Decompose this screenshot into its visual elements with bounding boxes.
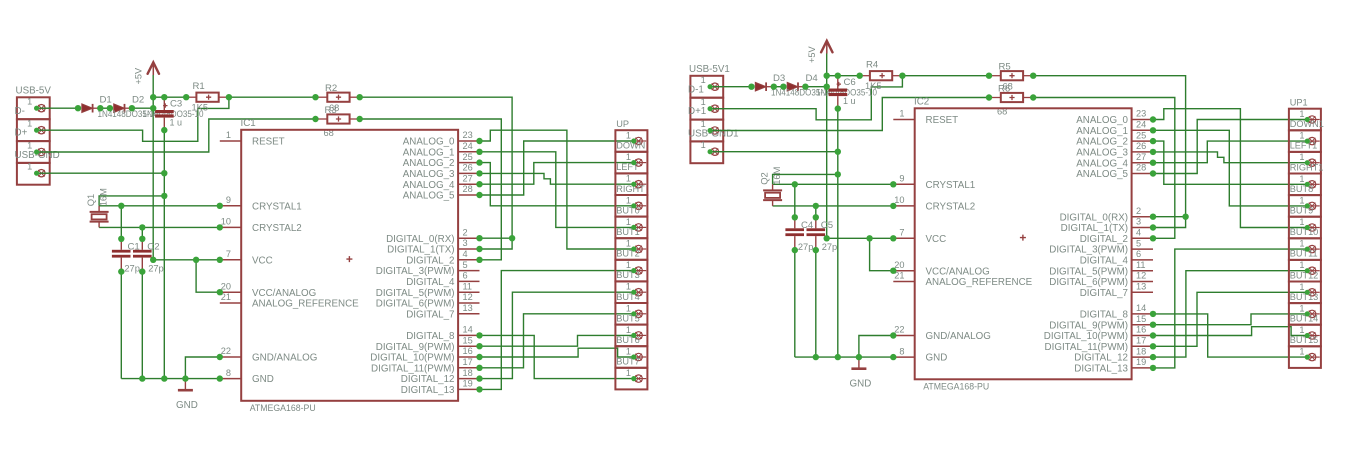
- resistor R2 68: [316, 83, 360, 113]
- svg-text:1: 1: [27, 97, 32, 107]
- wire pin 22 to GND rail: [185, 357, 219, 379]
- svg-text:27p: 27p: [124, 263, 140, 273]
- wire DIGITAL_8 to BUT7: [1153, 314, 1307, 357]
- svg-text:1: 1: [626, 239, 631, 249]
- wire D- pullup between R: [229, 96, 316, 98]
- wire pin 20 to VCC: [196, 260, 220, 292]
- svg-text:VCC/ANALOG: VCC/ANALOG: [926, 266, 990, 277]
- svg-text:ATMEGA168-PU: ATMEGA168-PU: [250, 403, 316, 414]
- svg-text:24: 24: [463, 141, 473, 151]
- svg-text:1: 1: [626, 131, 631, 141]
- svg-text:+5V: +5V: [807, 46, 817, 63]
- svg-text:1: 1: [626, 217, 631, 227]
- resistor R4 1K5: [860, 60, 903, 91]
- connector BUT15: [1289, 335, 1321, 368]
- wire BUT2 to DIGITAL_13: [1153, 249, 1307, 368]
- +5V power symbol: [807, 41, 833, 63]
- svg-text:4: 4: [1136, 228, 1141, 238]
- svg-text:GND: GND: [176, 400, 198, 411]
- wire BUT3 to DIGITAL_12: [1153, 271, 1307, 357]
- svg-text:DIGITAL_2: DIGITAL_2: [1080, 234, 1128, 245]
- wire USB-5V1 pin to diode: [710, 86, 751, 88]
- wire D- net: [710, 76, 902, 120]
- wire CRYSTAL2: [99, 226, 220, 228]
- svg-text:DIGITAL_0(RX): DIGITAL_0(RX): [1060, 212, 1128, 223]
- wire diode out to +5V rail: [805, 86, 826, 88]
- svg-text:20: 20: [221, 281, 231, 291]
- svg-text:DIGITAL_4: DIGITAL_4: [1080, 256, 1129, 267]
- connector BUT4: [615, 292, 647, 325]
- svg-text:UP1: UP1: [1290, 98, 1308, 108]
- svg-text:27p: 27p: [822, 242, 838, 252]
- wire GND vertical: [837, 109, 839, 358]
- wire C cap1 bottom to rail: [794, 250, 796, 357]
- capacitor C1 27p: [112, 239, 140, 273]
- wire ANALOG_0 to BUT1: [480, 130, 634, 249]
- svg-text:BUT12: BUT12: [1290, 270, 1319, 280]
- resistor R1 1K5: [186, 81, 229, 112]
- svg-text:ANALOG_3: ANALOG_3: [1076, 148, 1128, 159]
- diode D2: [114, 104, 133, 113]
- svg-text:GND: GND: [926, 353, 948, 364]
- connector BUT12: [1289, 270, 1321, 303]
- svg-text:15: 15: [463, 335, 473, 345]
- svg-text:13: 13: [463, 303, 473, 313]
- capacitor C5 27p: [807, 217, 838, 252]
- capacitor C3 1u: [155, 97, 182, 130]
- connector LEFT1: [1289, 141, 1321, 174]
- svg-text:VCC: VCC: [252, 255, 273, 266]
- svg-text:RIGHT: RIGHT: [616, 184, 645, 194]
- wire CRYSTAL1: [773, 183, 894, 185]
- svg-text:23: 23: [463, 130, 473, 140]
- connector BUT11: [1289, 249, 1321, 282]
- svg-text:C5: C5: [821, 220, 833, 231]
- svg-text:BUT15: BUT15: [1290, 335, 1319, 345]
- wire ANALOG_1 to BUT0: [1153, 130, 1307, 206]
- svg-text:IC2: IC2: [914, 97, 929, 108]
- svg-text:1 u: 1 u: [843, 96, 856, 106]
- wire CRYSTAL2: [773, 205, 894, 207]
- svg-text:12: 12: [463, 292, 473, 302]
- resistor R5 68: [989, 62, 1033, 92]
- wire C cap2 top: [815, 206, 817, 217]
- svg-text:14: 14: [1136, 303, 1146, 313]
- svg-text:1: 1: [626, 282, 631, 292]
- svg-text:UP: UP: [616, 119, 629, 129]
- svg-text:GND/ANALOG: GND/ANALOG: [252, 353, 317, 364]
- svg-text:26: 26: [463, 163, 473, 173]
- wire VCC to pin 7: [153, 259, 220, 261]
- svg-text:DIGITAL_13: DIGITAL_13: [1074, 364, 1128, 375]
- svg-text:BUT0: BUT0: [616, 205, 640, 215]
- connector USB-5V1: [689, 64, 730, 98]
- capacitor C4 27p: [785, 217, 814, 252]
- wire DIGITAL_8 to BUT7: [480, 335, 634, 378]
- svg-text:18: 18: [1136, 346, 1146, 356]
- wire UP to ANALOG_5: [480, 141, 634, 195]
- wire D- pullup between R: [902, 75, 989, 77]
- wire DOWN to ANALOG_4: [480, 163, 634, 185]
- diode D3: [755, 82, 774, 91]
- svg-text:1: 1: [27, 141, 32, 151]
- svg-text:28: 28: [463, 184, 473, 194]
- svg-text:R2: R2: [325, 83, 337, 94]
- svg-text:RESET: RESET: [252, 137, 285, 148]
- wire C cap1 top: [794, 184, 796, 217]
- svg-text:1: 1: [226, 130, 231, 140]
- connector D+: [15, 128, 50, 163]
- svg-text:DIGITAL_8: DIGITAL_8: [1080, 310, 1129, 321]
- svg-text:15: 15: [1136, 314, 1146, 324]
- svg-text:1: 1: [1299, 260, 1304, 270]
- svg-text:LEFT1: LEFT1: [1290, 141, 1318, 151]
- svg-text:ANALOG_REFERENCE: ANALOG_REFERENCE: [252, 299, 359, 310]
- svg-text:DIGITAL_3(PWM): DIGITAL_3(PWM): [1049, 245, 1128, 256]
- svg-text:5: 5: [1136, 238, 1141, 248]
- ground symbol: [176, 379, 198, 411]
- svg-text:BUT10: BUT10: [1290, 227, 1319, 237]
- svg-text:11: 11: [463, 281, 473, 291]
- svg-text:D4: D4: [806, 73, 819, 84]
- capacitor C6 1u: [829, 76, 856, 109]
- connector D-: [15, 106, 50, 141]
- svg-text:D-1: D-1: [688, 84, 704, 95]
- svg-text:BUT8: BUT8: [1290, 184, 1314, 194]
- svg-text:DIGITAL_3(PWM): DIGITAL_3(PWM): [376, 266, 455, 277]
- svg-text:CRYSTAL2: CRYSTAL2: [252, 223, 302, 234]
- svg-text:DIGITAL_7: DIGITAL_7: [1080, 288, 1128, 299]
- ground symbol: [850, 357, 872, 389]
- svg-text:10: 10: [894, 195, 904, 205]
- wire C cap1 top: [120, 206, 122, 239]
- svg-text:DIGITAL_1(TX): DIGITAL_1(TX): [387, 245, 454, 256]
- wire GND vertical: [163, 130, 165, 379]
- resistor R3 68: [316, 105, 360, 138]
- connector BUT7: [615, 357, 647, 390]
- wire BUT3 to DIGITAL_12: [480, 292, 634, 378]
- svg-text:1: 1: [1299, 109, 1304, 119]
- crystal Q2 16M: [759, 166, 783, 206]
- svg-text:GND/ANALOG: GND/ANALOG: [926, 331, 991, 342]
- svg-text:26: 26: [1136, 141, 1146, 151]
- wire ANALOG_0 to BUT1: [1153, 109, 1307, 228]
- wire BUT4 to DIGITAL_11: [1153, 292, 1307, 346]
- svg-text:1: 1: [1299, 282, 1304, 292]
- svg-text:1: 1: [626, 152, 631, 162]
- svg-text:C3: C3: [170, 99, 182, 110]
- connector BUT9: [1289, 206, 1321, 239]
- connector BUT8: [1289, 184, 1321, 217]
- wire GND rail: [121, 378, 220, 380]
- svg-text:1: 1: [1299, 195, 1304, 205]
- wire D+ net: [37, 119, 316, 152]
- svg-text:BUT9: BUT9: [1290, 206, 1314, 216]
- svg-text:5: 5: [463, 260, 468, 270]
- svg-text:D-: D-: [15, 106, 25, 117]
- svg-text:R5: R5: [999, 62, 1011, 73]
- svg-text:BUT6: BUT6: [616, 335, 640, 345]
- svg-text:16: 16: [463, 346, 473, 356]
- svg-text:27p: 27p: [798, 242, 814, 252]
- wire DIGITAL_10 to BUT6: [480, 348, 634, 357]
- svg-text:2: 2: [463, 227, 468, 237]
- svg-text:ATMEGA168-PU: ATMEGA168-PU: [923, 382, 989, 393]
- svg-text:DIGITAL_12: DIGITAL_12: [401, 374, 455, 385]
- connector USB-GND: [15, 150, 60, 185]
- wire C cap2 bottom: [141, 272, 143, 379]
- wire +5V rail vertical: [826, 54, 828, 239]
- svg-text:BUT13: BUT13: [1290, 292, 1319, 302]
- svg-text:GND: GND: [252, 374, 274, 385]
- svg-text:22: 22: [221, 346, 231, 356]
- connector BUT1: [615, 227, 647, 260]
- svg-text:ANALOG_3: ANALOG_3: [403, 169, 455, 180]
- wire +5V top rail to R: [827, 75, 860, 77]
- svg-text:27p: 27p: [148, 263, 164, 273]
- svg-text:DIGITAL_2: DIGITAL_2: [406, 255, 454, 266]
- wire pin 22 to GND rail: [859, 336, 893, 358]
- connector BUT6: [615, 335, 647, 368]
- svg-text:D1: D1: [100, 94, 112, 105]
- svg-text:USB-5V1: USB-5V1: [689, 64, 730, 75]
- svg-text:D3: D3: [773, 73, 785, 84]
- svg-text:1: 1: [1299, 174, 1304, 184]
- connector BUT14: [1289, 314, 1321, 347]
- svg-text:BUT5: BUT5: [616, 313, 640, 323]
- svg-text:1: 1: [626, 174, 631, 184]
- wire pin 20 to VCC: [870, 238, 894, 270]
- svg-text:4: 4: [463, 249, 468, 259]
- svg-text:16M: 16M: [97, 188, 108, 206]
- connector BUT10: [1289, 227, 1321, 260]
- connector BUT5: [615, 313, 647, 346]
- wire BUT2 to DIGITAL_13: [480, 271, 634, 390]
- connector RIGHT1: [1289, 162, 1324, 195]
- svg-text:DIGITAL_7: DIGITAL_7: [406, 309, 454, 320]
- svg-text:DIGITAL_12: DIGITAL_12: [1074, 353, 1128, 364]
- wire diode D1-D2: [774, 86, 784, 88]
- wire ANALOG_2 to RIGHT: [480, 163, 634, 206]
- wire DIGITAL_9 to BUT5: [1153, 314, 1307, 325]
- svg-text:RESET: RESET: [926, 115, 959, 126]
- wire USB-GND: [37, 172, 165, 174]
- svg-text:ANALOG_1: ANALOG_1: [1076, 126, 1128, 137]
- wire DOWN to ANALOG_4: [1153, 141, 1307, 163]
- svg-text:6: 6: [1136, 249, 1141, 259]
- connector BUT0: [615, 205, 647, 238]
- svg-text:3: 3: [1136, 217, 1141, 227]
- svg-text:1: 1: [1299, 303, 1304, 313]
- resistor R6 68: [989, 83, 1033, 116]
- wire ANALOG_3 to LEFT: [1153, 152, 1307, 163]
- connector DOWN: [615, 141, 647, 174]
- svg-text:8: 8: [226, 368, 231, 378]
- svg-text:1: 1: [626, 325, 631, 335]
- svg-text:10: 10: [221, 217, 231, 227]
- wire R R6 to pin 4: [1033, 98, 1175, 239]
- svg-text:24: 24: [1136, 120, 1146, 130]
- svg-text:ANALOG_4: ANALOG_4: [1076, 158, 1128, 169]
- wire +5V rail vertical: [152, 75, 154, 260]
- svg-text:17: 17: [463, 357, 473, 367]
- svg-text:11: 11: [1136, 260, 1146, 270]
- wire ANALOG_1 to BUT0: [480, 152, 634, 228]
- svg-text:BUT2: BUT2: [616, 249, 640, 259]
- svg-text:BUT11: BUT11: [1290, 249, 1318, 259]
- svg-text:+5V: +5V: [134, 67, 144, 84]
- svg-text:DOWN: DOWN: [616, 141, 645, 151]
- wire GND rail: [795, 356, 894, 358]
- svg-text:1: 1: [1299, 131, 1304, 141]
- svg-text:1: 1: [1299, 325, 1304, 335]
- wire D- net: [37, 97, 229, 141]
- svg-text:ANALOG_5: ANALOG_5: [403, 191, 455, 202]
- svg-text:1K5: 1K5: [865, 81, 882, 91]
- svg-text:1: 1: [626, 260, 631, 270]
- svg-text:1: 1: [1299, 217, 1304, 227]
- svg-text:ANALOG_1: ANALOG_1: [403, 147, 455, 158]
- svg-text:7: 7: [226, 249, 231, 259]
- wire DIGITAL_10 to BUT6: [1153, 327, 1307, 336]
- svg-text:16M: 16M: [771, 166, 782, 184]
- svg-text:19: 19: [1136, 357, 1146, 367]
- svg-text:DIGITAL_9(PWM): DIGITAL_9(PWM): [1049, 320, 1128, 331]
- svg-text:20: 20: [894, 260, 904, 270]
- svg-text:DIGITAL_6(PWM): DIGITAL_6(PWM): [376, 299, 455, 310]
- svg-text:25: 25: [463, 152, 473, 162]
- svg-text:7: 7: [899, 228, 904, 238]
- svg-text:1 u: 1 u: [170, 118, 183, 128]
- svg-text:27: 27: [463, 173, 473, 183]
- connector pin dots: [708, 84, 1310, 360]
- connector BUT3: [615, 270, 647, 303]
- svg-text:DIGITAL_11(PWM): DIGITAL_11(PWM): [1045, 342, 1128, 353]
- connector UP: [615, 119, 647, 152]
- wire R R3 to pin 4: [360, 119, 502, 260]
- svg-text:R4: R4: [866, 60, 879, 71]
- svg-text:1: 1: [27, 119, 32, 129]
- svg-text:BUT4: BUT4: [616, 292, 640, 302]
- svg-text:17: 17: [1136, 336, 1146, 346]
- connector BUT2: [615, 249, 647, 282]
- svg-text:R6: R6: [998, 83, 1010, 94]
- svg-text:25: 25: [1136, 130, 1146, 140]
- wire R R2 to pins 2/3: [360, 97, 512, 249]
- connector DOWN1: [1289, 119, 1324, 152]
- svg-text:BUT1: BUT1: [616, 227, 640, 237]
- svg-text:ANALOG_5: ANALOG_5: [1076, 169, 1128, 180]
- wire USB-GND: [710, 151, 838, 153]
- wire UP to ANALOG_5: [1153, 120, 1307, 174]
- junction dots: [75, 94, 516, 393]
- svg-text:18: 18: [463, 368, 473, 378]
- svg-text:ANALOG_0: ANALOG_0: [403, 137, 455, 148]
- svg-text:CRYSTAL1: CRYSTAL1: [926, 180, 976, 191]
- junction dots: [748, 73, 1189, 372]
- wire ANALOG_3 to LEFT: [480, 173, 634, 184]
- svg-text:D+1: D+1: [688, 106, 706, 117]
- svg-text:DIGITAL_11(PWM): DIGITAL_11(PWM): [371, 363, 454, 374]
- svg-text:IC1: IC1: [241, 118, 256, 129]
- svg-text:Q2: Q2: [759, 172, 770, 185]
- wire D+ net: [710, 98, 989, 131]
- svg-text:16: 16: [1136, 325, 1146, 335]
- svg-text:6: 6: [463, 271, 468, 281]
- svg-text:Q1: Q1: [85, 194, 96, 207]
- op-amp U: microcontroller IC1 ATMEGA168-PU: [220, 118, 480, 414]
- connector pin dots: [34, 106, 636, 382]
- svg-text:BUT3: BUT3: [616, 270, 640, 280]
- svg-text:GND: GND: [850, 378, 872, 389]
- svg-text:C2: C2: [147, 241, 159, 252]
- svg-text:R1: R1: [193, 81, 205, 92]
- svg-text:DIGITAL_6(PWM): DIGITAL_6(PWM): [1049, 277, 1128, 288]
- svg-text:ANALOG_2: ANALOG_2: [1076, 137, 1128, 148]
- wire C cap2 bottom: [815, 250, 817, 357]
- svg-text:28: 28: [1136, 163, 1146, 173]
- svg-text:1: 1: [1299, 152, 1304, 162]
- connector D-1: [688, 84, 723, 119]
- svg-text:14: 14: [463, 325, 473, 335]
- wire C cap1 bottom to rail: [120, 272, 122, 379]
- svg-text:DIGITAL_1(TX): DIGITAL_1(TX): [1061, 223, 1128, 234]
- svg-text:1: 1: [899, 109, 904, 119]
- crystal Q1 16M: [85, 188, 109, 228]
- wire pin 2 tap: [1153, 216, 1186, 218]
- svg-text:DIGITAL_10(PWM): DIGITAL_10(PWM): [1044, 331, 1128, 342]
- svg-text:1: 1: [626, 195, 631, 205]
- svg-text:D+: D+: [15, 128, 28, 139]
- svg-text:CRYSTAL1: CRYSTAL1: [252, 201, 302, 212]
- svg-text:27: 27: [1136, 152, 1146, 162]
- +5V power symbol: [134, 62, 160, 84]
- connector LEFT: [615, 162, 647, 195]
- wire CRYSTAL1: [99, 205, 220, 207]
- svg-text:1K5: 1K5: [192, 102, 209, 112]
- svg-text:VCC/ANALOG: VCC/ANALOG: [252, 288, 316, 299]
- svg-text:D2: D2: [132, 94, 144, 105]
- svg-text:ANALOG_2: ANALOG_2: [403, 158, 455, 169]
- svg-text:CRYSTAL2: CRYSTAL2: [926, 202, 976, 213]
- wire R R5 to pins 2/3: [1033, 76, 1185, 228]
- svg-text:3: 3: [463, 238, 468, 248]
- svg-text:1: 1: [701, 119, 706, 129]
- wire DIGITAL_9 to BUT5: [480, 335, 634, 346]
- wire VCC to pin 7: [827, 237, 894, 239]
- svg-text:DIGITAL_9(PWM): DIGITAL_9(PWM): [376, 342, 455, 353]
- svg-text:1: 1: [626, 368, 631, 378]
- svg-text:DIGITAL_5(PWM): DIGITAL_5(PWM): [376, 288, 455, 299]
- svg-text:DIGITAL_4: DIGITAL_4: [406, 277, 455, 288]
- svg-text:1: 1: [626, 347, 631, 357]
- wire USB-5V pin to diode: [37, 107, 78, 109]
- connector BUT13: [1289, 292, 1321, 325]
- svg-text:22: 22: [894, 325, 904, 335]
- svg-text:1: 1: [701, 140, 706, 150]
- svg-text:2: 2: [1136, 206, 1141, 216]
- wire ANALOG_2 to RIGHT: [1153, 141, 1307, 184]
- connector RIGHT: [615, 184, 647, 217]
- diode D1: [82, 104, 101, 113]
- svg-text:R3: R3: [325, 105, 337, 116]
- svg-text:23: 23: [1136, 109, 1146, 119]
- svg-text:9: 9: [226, 195, 231, 205]
- wire diode D1-D2: [100, 107, 110, 109]
- connector USB-GND1: [688, 129, 739, 164]
- svg-text:1: 1: [1299, 239, 1304, 249]
- svg-text:ANALOG_0: ANALOG_0: [1076, 115, 1128, 126]
